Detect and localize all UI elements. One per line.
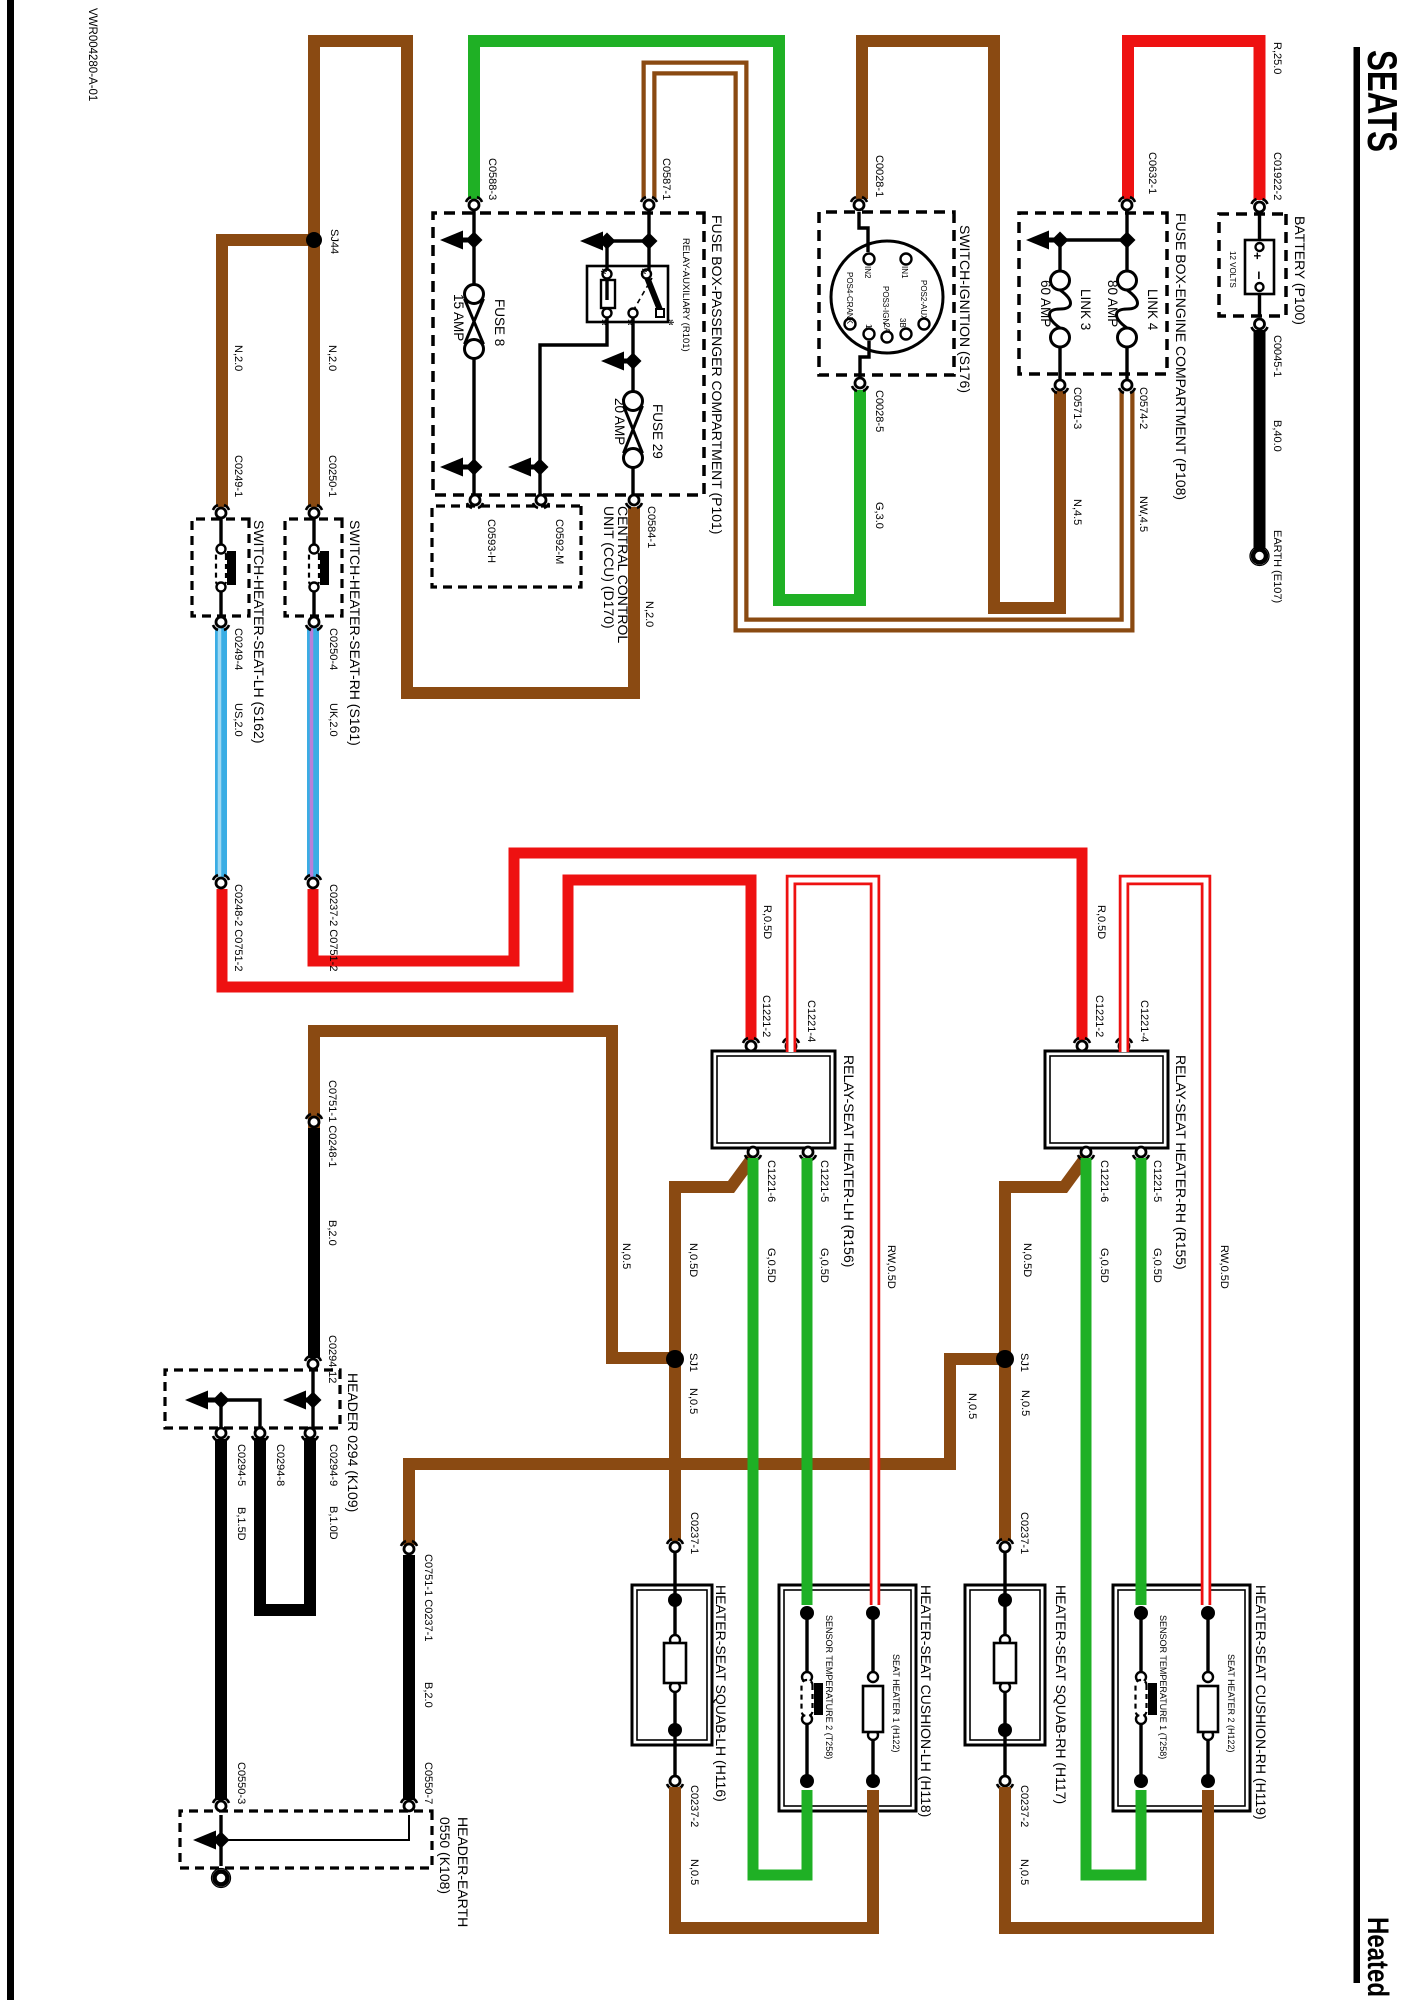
svg-text:LINK 4: LINK 4 — [1145, 289, 1160, 331]
P108 internal wiring — [1125, 211, 1128, 271]
connector C0250-1 — [306, 505, 322, 518]
junction K109 j2 — [213, 1392, 230, 1409]
svg-text:B,40.0: B,40.0 — [1271, 420, 1283, 452]
svg-text:IN2: IN2 — [863, 266, 872, 279]
svg-text:G,0.5D: G,0.5D — [1151, 1248, 1163, 1283]
connector C0294-12 — [305, 1356, 321, 1369]
connector C01922-2 — [1252, 199, 1268, 212]
battery cell symbol — [1258, 214, 1261, 244]
junction heater-seat cushion-LH H118 sensor j2 — [800, 1774, 814, 1788]
P101 fuse 8 chain — [472, 211, 475, 285]
arrow K109 arrow left — [185, 1391, 217, 1410]
connector C1221-6 RH — [1078, 1147, 1094, 1160]
switch-heater-seat-RH S161 element — [312, 519, 315, 545]
svg-text:HEADER 0294 (K109): HEADER 0294 (K109) — [345, 1373, 361, 1512]
wire B,1.0D K109 loop — [260, 1438, 310, 1610]
earth E107 ring terminal — [1250, 547, 1269, 566]
svg-text:G,0.5D: G,0.5D — [818, 1248, 830, 1283]
svg-text:C0237-2 C0751-2: C0237-2 C0751-2 — [327, 884, 339, 971]
svg-text:B,1.5D: B,1.5D — [235, 1507, 247, 1541]
connector C0250-4 — [306, 617, 322, 630]
svg-text:N,4.5: N,4.5 — [1071, 499, 1083, 525]
svg-text:−: − — [1250, 271, 1267, 280]
switch-ignition S176 box — [819, 212, 954, 375]
svg-text:R,25.0: R,25.0 — [1271, 42, 1283, 74]
heater-seat cushion-RH H119 box — [1113, 1585, 1250, 1811]
junction SJ1 RH — [996, 1350, 1014, 1368]
svg-text:B,1.0D: B,1.0D — [327, 1506, 339, 1540]
svg-text:C0237-1: C0237-1 — [688, 1512, 700, 1554]
svg-text:R,0.5D: R,0.5D — [761, 905, 773, 939]
connector C1221-4 RH — [1116, 1038, 1132, 1051]
svg-text:C1221-5: C1221-5 — [818, 1160, 830, 1202]
svg-text:POS4-CRANK: POS4-CRANK — [845, 272, 854, 325]
connector C0294-9 — [302, 1428, 318, 1441]
svg-text:C0632-1: C0632-1 — [1146, 152, 1158, 194]
junction P108 j2 — [1052, 232, 1069, 249]
svg-text:0550 (K108): 0550 (K108) — [437, 1817, 453, 1894]
fusible link LINK 4 80A — [1117, 271, 1138, 347]
junction fuse29 j — [625, 353, 642, 370]
svg-text:SWITCH-HEATER-SEAT-RH (S161): SWITCH-HEATER-SEAT-RH (S161) — [347, 520, 363, 746]
junction SJ44 — [306, 232, 322, 248]
svg-text:FUSE 8: FUSE 8 — [492, 299, 507, 346]
svg-text:HEATER-SEAT CUSHION-LH (H118): HEATER-SEAT CUSHION-LH (H118) — [918, 1585, 934, 1817]
svg-text:RW,0.5D: RW,0.5D — [885, 1245, 897, 1289]
switch-heater-seat-LH S162 element — [219, 519, 222, 545]
R101 out through fuse 29 — [631, 317, 634, 392]
wire N,0.5 loop to SJ1 LH — [314, 1031, 675, 1358]
wire N,4.5 link3 to ignition switch — [862, 41, 1060, 608]
wire N,0.5 H116 to H118 — [675, 1787, 873, 1928]
svg-text:N,0.5: N,0.5 — [620, 1243, 632, 1269]
connector C1221-5 RH — [1133, 1147, 1149, 1160]
battery P100 box — [1219, 214, 1286, 316]
wire G,0.5D RH relay to H119 sensor — [1136, 1158, 1147, 1605]
R101 pins — [603, 270, 612, 279]
junction heater-seat cushion-LH H118 heater j2 — [866, 1774, 880, 1788]
svg-text:C0249-4: C0249-4 — [232, 628, 244, 670]
svg-text:N,0.5: N,0.5 — [687, 1388, 699, 1414]
wire N,0.5D RH relay to SJ1 — [1005, 1157, 1086, 1359]
connector C0237-2 — [997, 1776, 1013, 1789]
svg-text:C1221-6: C1221-6 — [1098, 1160, 1110, 1202]
svg-text:C0592-M: C0592-M — [553, 519, 565, 564]
svg-text:C1221-6: C1221-6 — [765, 1160, 777, 1202]
svg-text:C0593-H: C0593-H — [485, 519, 497, 563]
svg-text:RELAY-SEAT HEATER-LH (R156): RELAY-SEAT HEATER-LH (R156) — [841, 1055, 857, 1267]
connector C0571-3 — [1052, 380, 1068, 393]
svg-text:60 AMP: 60 AMP — [1038, 280, 1053, 327]
svg-text:POS3-IGN: POS3-IGN — [881, 286, 890, 324]
svg-text:✻: ✻ — [639, 268, 648, 275]
connector C0237-1 — [997, 1539, 1013, 1552]
svg-text:N,2.0: N,2.0 — [643, 601, 655, 627]
svg-text:C0028-5: C0028-5 — [873, 390, 885, 432]
junction K108 j1 — [213, 1832, 230, 1849]
wire RW,0.5D LH relay loop — [791, 880, 875, 1605]
arrow fuse29 spur — [601, 352, 629, 371]
connector C0045-1 — [1252, 319, 1268, 332]
connector C0587-1 — [641, 197, 657, 210]
connector C0574-2 — [1119, 380, 1135, 393]
svg-text:C0550-7: C0550-7 — [422, 1762, 434, 1804]
connector C0294-8 — [252, 1428, 268, 1441]
junction relay j1 — [599, 233, 616, 250]
connector C0751-1 C0237-1 — [401, 1541, 417, 1554]
svg-text:SENSOR TEMPERATURE 1 (T258): SENSOR TEMPERATURE 1 (T258) — [1158, 1615, 1168, 1759]
connector C0550-3 — [213, 1798, 229, 1811]
svg-text:R,0.5D: R,0.5D — [1095, 905, 1107, 939]
svg-text:C1221-2: C1221-2 — [760, 995, 772, 1037]
svg-text:1: 1 — [864, 324, 873, 329]
svg-text:C0237-1: C0237-1 — [1018, 1512, 1030, 1554]
connector C1221-6 LH — [745, 1147, 761, 1160]
junction fuse8 j1 — [466, 232, 483, 249]
svg-text:N,0.5D: N,0.5D — [1021, 1243, 1033, 1277]
arrow relay spur — [580, 232, 603, 251]
svg-text:N,0.5: N,0.5 — [1018, 1859, 1030, 1885]
svg-text:N,0.5: N,0.5 — [688, 1859, 700, 1885]
wire N,0.5 SJ1 to C0237-1 LH — [669, 1359, 681, 1541]
svg-text:EARTH (E107): EARTH (E107) — [1271, 530, 1283, 603]
wire B,2.0 to header K109 — [308, 1128, 320, 1358]
wire N,0.5D LH relay to SJ1 — [675, 1157, 753, 1359]
fusible link LINK 3 60A — [1050, 271, 1071, 347]
svg-text:SEAT HEATER 1 (H122): SEAT HEATER 1 (H122) — [891, 1654, 901, 1753]
svg-text:NW,4.5: NW,4.5 — [1137, 496, 1149, 532]
svg-text:SENSOR TEMPERATURE 2 (T258): SENSOR TEMPERATURE 2 (T258) — [824, 1615, 834, 1759]
S176 pins — [864, 254, 875, 265]
svg-text:SWITCH-HEATER-SEAT-LH (S162): SWITCH-HEATER-SEAT-LH (S162) — [251, 520, 267, 744]
connector C0632-1 — [1119, 197, 1135, 210]
R101 coil — [601, 280, 615, 308]
connector C1221-4 LH — [783, 1038, 799, 1051]
svg-text:80 AMP: 80 AMP — [1105, 280, 1120, 327]
svg-text:12 VOLTS: 12 VOLTS — [1228, 251, 1237, 288]
connector C0237-2 C0751-2 — [305, 875, 321, 888]
junction heater-seat squab-LH H116 j2 — [668, 1723, 682, 1737]
svg-text:✻: ✻ — [666, 319, 675, 326]
svg-text:C0249-1: C0249-1 — [232, 455, 244, 497]
svg-text:B,2.0: B,2.0 — [422, 1682, 434, 1708]
svg-text:C1221-4: C1221-4 — [805, 1000, 817, 1042]
svg-text:US,2.0: US,2.0 — [232, 703, 244, 737]
junction heater-seat cushion-LH H118 heater j1 — [866, 1606, 880, 1620]
heater-seat squab-RH H117 box — [965, 1585, 1045, 1745]
header-earth 0550 K108 box — [180, 1811, 432, 1868]
svg-text:B,2.0: B,2.0 — [326, 1220, 338, 1246]
switch-heater-seat-LH S162 box — [192, 519, 249, 616]
arrow P108 spur — [1026, 231, 1056, 250]
svg-text:UK,2.0: UK,2.0 — [327, 703, 339, 737]
fuse box passenger compartment P101 — [433, 213, 704, 495]
relay-seat heater-LH R156 box — [712, 1051, 835, 1148]
arrow coil spur — [508, 458, 536, 477]
svg-text:2A: 2A — [882, 323, 891, 333]
svg-text:N,2.0: N,2.0 — [326, 345, 338, 371]
S176 wire in — [859, 212, 868, 252]
svg-text:SJ1: SJ1 — [687, 1353, 699, 1372]
junction heater-seat squab-RH H117 j1 — [998, 1593, 1012, 1607]
connector C0248-2 C0751-2 — [213, 875, 229, 888]
switch-heater-seat-RH S161 box — [285, 519, 342, 616]
svg-text:C0588-3: C0588-3 — [486, 158, 498, 200]
connector C1221-2 RH — [1074, 1038, 1090, 1051]
svg-text:C1221-4: C1221-4 — [1138, 1000, 1150, 1042]
arrow fuse8 spur top — [440, 231, 470, 250]
svg-text:POS2-AUX: POS2-AUX — [919, 280, 928, 321]
heater-seat squab-LH H116 element — [673, 1552, 676, 1638]
svg-text:C0751-1 C0237-1: C0751-1 C0237-1 — [422, 1554, 434, 1641]
svg-text:LINK 3: LINK 3 — [1078, 289, 1093, 330]
junction fuse8 j2 — [466, 459, 483, 476]
svg-text:C0237-2: C0237-2 — [688, 1785, 700, 1827]
svg-text:N,2.0: N,2.0 — [232, 345, 244, 371]
arrow K108 arrow — [193, 1831, 217, 1850]
R101 contact arm — [647, 276, 661, 310]
heater-seat cushion-LH H118 box — [779, 1585, 916, 1811]
svg-text:C0574-2: C0574-2 — [1137, 387, 1149, 429]
svg-text:IN1: IN1 — [900, 266, 909, 279]
relay R101 aux — [587, 266, 668, 322]
svg-text:20 AMP: 20 AMP — [612, 398, 627, 445]
heater-seat squab-RH H117 element — [1003, 1552, 1006, 1638]
svg-text:FUSE BOX-ENGINE COMPARTMENT (P: FUSE BOX-ENGINE COMPARTMENT (P108) — [1173, 213, 1189, 500]
wire R,0.5D LH switch to LH relay — [222, 880, 751, 1040]
svg-text:HEATER-SEAT SQUAB-RH (H117): HEATER-SEAT SQUAB-RH (H117) — [1053, 1585, 1069, 1804]
connector C0249-1 — [213, 505, 229, 518]
svg-text:RELAY-SEAT HEATER-RH (R155): RELAY-SEAT HEATER-RH (R155) — [1173, 1055, 1189, 1270]
junction heater-seat cushion-RH H119 sensor j2 — [1134, 1774, 1148, 1788]
wire G,0.5D LH relay to H118 bottom — [753, 1158, 807, 1875]
svg-text:+: + — [1250, 252, 1265, 260]
header 0294 K109 box — [165, 1370, 340, 1428]
svg-text:UNIT (CCU) (D170): UNIT (CCU) (D170) — [601, 506, 617, 629]
wire N,2.0 SJ44 branch — [222, 240, 314, 507]
svg-text:G,0.5D: G,0.5D — [1098, 1248, 1110, 1283]
connector C1221-5 LH — [800, 1147, 816, 1160]
connector C0593-H — [467, 495, 483, 508]
svg-text:SWITCH-IGNITION (S176): SWITCH-IGNITION (S176) — [957, 225, 973, 393]
wire B,40.0 battery to earth — [1254, 330, 1266, 549]
svg-text:FUSE BOX-PASSENGER COMPARTMENT: FUSE BOX-PASSENGER COMPARTMENT (P101) — [709, 215, 725, 534]
connector C0584-1 — [626, 495, 642, 508]
connector C0751-1 C0248-1 — [306, 1114, 322, 1127]
svg-text:SEAT HEATER 2 (H122): SEAT HEATER 2 (H122) — [1226, 1654, 1236, 1753]
svg-text:BATTERY (P100): BATTERY (P100) — [1292, 216, 1308, 325]
wire R,25.0 battery to fusebox — [1128, 41, 1260, 200]
svg-text:15 AMP: 15 AMP — [451, 294, 466, 341]
svg-text:C0045-1: C0045-1 — [1271, 335, 1283, 377]
connector C0237-2 — [667, 1776, 683, 1789]
connector C0588-3 — [466, 197, 482, 210]
connector C0592-M — [533, 495, 549, 508]
relay-seat heater-RH R155 box — [1045, 1051, 1168, 1148]
wire N,0.5 SJ1 RH to header — [409, 1359, 1007, 1545]
svg-text:SJ44: SJ44 — [328, 229, 340, 254]
svg-text:HEADER-EARTH: HEADER-EARTH — [455, 1817, 471, 1927]
svg-text:N,0.5: N,0.5 — [966, 1393, 978, 1419]
junction heater-seat cushion-RH H119 heater j1 — [1201, 1606, 1215, 1620]
S176 rotary switch circle — [831, 241, 943, 353]
connector C0237-1 — [667, 1539, 683, 1552]
svg-text:SEATS: SEATS — [1359, 50, 1406, 152]
junction heater-seat cushion-RH H119 heater j2 — [1201, 1774, 1215, 1788]
svg-text:N,0.5D: N,0.5D — [687, 1243, 699, 1277]
arrow K109 arrow right — [283, 1391, 309, 1410]
svg-text:C0294-8: C0294-8 — [274, 1444, 286, 1486]
connector C1221-2 LH — [743, 1038, 759, 1051]
wire B,2.0 to header K108 — [403, 1555, 415, 1800]
svg-text:C0571-3: C0571-3 — [1071, 387, 1083, 429]
svg-text:C0587-1: C0587-1 — [660, 158, 672, 200]
connector C0028-5 — [852, 378, 868, 391]
fuse 29 20A — [624, 392, 643, 468]
svg-text:C01922-2: C01922-2 — [1271, 152, 1283, 200]
svg-text:RELAY-AUXILIARY (R101): RELAY-AUXILIARY (R101) — [680, 238, 691, 352]
wire G,0.5D LH relay to H118 sensor — [802, 1158, 813, 1605]
wire RW,0.5D RH relay loop — [1124, 880, 1206, 1605]
R101 coil to C0592-M — [540, 317, 607, 496]
junction heater-seat cushion-LH H118 sensor j1 — [800, 1606, 814, 1620]
connector C0028-1 — [851, 197, 867, 210]
junction relay j2 — [641, 233, 658, 250]
page border line — [7, 0, 14, 2000]
svg-text:C0550-3: C0550-3 — [235, 1762, 247, 1804]
wire NW,4.5 link4 to relay R101 — [649, 68, 1127, 625]
svg-text:C1221-5: C1221-5 — [1151, 1160, 1163, 1202]
svg-text:C1221-2: C1221-2 — [1093, 995, 1105, 1037]
junction heater-seat squab-RH H117 j2 — [998, 1723, 1012, 1737]
K109 internal wiring — [311, 1370, 314, 1400]
svg-text:C0294-5: C0294-5 — [235, 1444, 247, 1486]
K108 internal wiring — [219, 1815, 222, 1840]
wire US,2.0 — [220, 628, 222, 877]
svg-text:C0028-1: C0028-1 — [873, 155, 885, 197]
wire N,0.5 SJ1 to C0237-1 RH — [999, 1359, 1011, 1541]
svg-text:G,0.5D: G,0.5D — [765, 1248, 777, 1283]
svg-text:C0250-1: C0250-1 — [326, 455, 338, 497]
K108 earth stud — [212, 1869, 231, 1888]
junction P108 j1 — [1119, 232, 1136, 249]
title rule — [1354, 47, 1361, 1983]
svg-text:HEATER-SEAT CUSHION-RH (H119): HEATER-SEAT CUSHION-RH (H119) — [1253, 1585, 1269, 1820]
svg-text:N,0.5: N,0.5 — [1019, 1390, 1031, 1416]
svg-text:C0248-2 C0751-2: C0248-2 C0751-2 — [232, 884, 244, 971]
junction heater-seat cushion-RH H119 sensor j1 — [1134, 1606, 1148, 1620]
connector C0550-7 — [401, 1798, 417, 1811]
central control unit CCU D170 — [432, 506, 581, 587]
svg-text:C0237-2: C0237-2 — [1018, 1785, 1030, 1827]
wire N,2.0 C0584-1 to switches — [314, 41, 634, 693]
junction coil j — [532, 459, 549, 476]
heater-seat squab-LH H116 box — [632, 1585, 712, 1745]
svg-text:C0584-1: C0584-1 — [645, 506, 657, 548]
P101 relay feed wiring — [647, 211, 650, 241]
wire B,1.5D K109 to K108 — [215, 1439, 227, 1800]
svg-text:G,3.0: G,3.0 — [873, 502, 885, 529]
svg-text:C0294-12: C0294-12 — [326, 1335, 338, 1383]
svg-text:C0294-9: C0294-9 — [327, 1444, 339, 1486]
svg-text:SJ1: SJ1 — [1018, 1353, 1030, 1372]
junction SJ1 LH — [666, 1350, 684, 1368]
connector C0294-5 — [213, 1428, 229, 1441]
svg-text:C0250-4: C0250-4 — [327, 628, 339, 670]
wire UK,2.0 — [312, 628, 314, 877]
svg-text:Heated: Heated — [1361, 1917, 1394, 1997]
fuse 8 15A — [465, 285, 484, 359]
arrow fuse8 spur bottom — [440, 458, 470, 477]
wire R,0.5D RH switch to RH relay — [313, 853, 1082, 1040]
wire G,0.5D RH relay to H119 bottom — [1086, 1158, 1141, 1875]
svg-text:HEATER-SEAT SQUAB-LH (H116): HEATER-SEAT SQUAB-LH (H116) — [713, 1585, 729, 1802]
svg-text:C0751-1 C0248-1: C0751-1 C0248-1 — [326, 1080, 338, 1167]
svg-text:VWR004280-A-01: VWR004280-A-01 — [86, 8, 98, 101]
S176 wire out — [860, 341, 869, 378]
junction heater-seat squab-LH H116 j1 — [668, 1593, 682, 1607]
connector C0249-4 — [213, 617, 229, 630]
wire N,0.5 H117 to H119 — [1005, 1787, 1208, 1928]
svg-text:FUSE 29: FUSE 29 — [650, 404, 665, 459]
svg-text:3B: 3B — [898, 318, 907, 328]
fuse box engine compartment P108 — [1019, 213, 1167, 374]
junction K109 j1 — [305, 1392, 322, 1409]
svg-text:RW,0.5D: RW,0.5D — [1218, 1245, 1230, 1289]
wire G,3.0 C0588-3 to ignition switch — [474, 41, 860, 600]
